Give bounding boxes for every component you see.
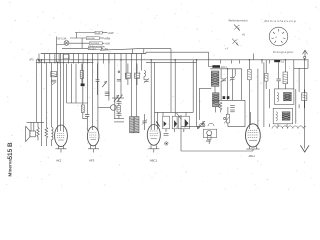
pickup arrow xyxy=(38,59,41,62)
wire pot to tube4 xyxy=(228,126,245,128)
dial lamp xyxy=(64,41,69,46)
wire drop2 to bus xyxy=(143,49,145,54)
wire R10 top xyxy=(248,60,250,70)
capacitor above tube2 xyxy=(85,114,89,116)
capacitor stack IF1 top xyxy=(117,102,122,104)
antenna trap symbol lower xyxy=(232,39,239,46)
wire under coil xyxy=(50,140,52,146)
svg-text:+U: +U xyxy=(242,33,246,37)
svg-text:200-580: 200-580 xyxy=(87,38,96,40)
wire cap block feeds xyxy=(303,90,305,93)
node circle mid xyxy=(118,71,120,73)
node circled junction xyxy=(165,142,168,145)
svg-text:Tonabn.: Tonabn. xyxy=(89,48,97,50)
component box on bus xyxy=(63,55,69,59)
wire left vertical to speaker line xyxy=(35,60,37,123)
wire to resistor R2 xyxy=(45,62,47,127)
caps right below IF2 xyxy=(230,106,235,112)
magic eye box xyxy=(203,129,216,137)
wire right b xyxy=(293,60,295,89)
mains arrow down xyxy=(300,145,309,152)
capacitor block right of transformer xyxy=(302,93,307,101)
wire IF2 bottom bar xyxy=(212,99,242,101)
bank box2 vane xyxy=(174,120,177,128)
svg-text:6-18: 6-18 xyxy=(96,33,101,35)
wire B1 leads xyxy=(127,64,129,74)
bus line B main xyxy=(36,59,309,61)
svg-text:(P): (P) xyxy=(30,58,34,62)
wire lamp bottom drop xyxy=(56,45,58,63)
electrolytic cap left xyxy=(51,80,56,82)
diode arrow D1 xyxy=(102,81,107,87)
output transformer upper primary bumps xyxy=(277,93,279,102)
wire lamp to row3 xyxy=(68,42,70,44)
tube V3 base line xyxy=(148,148,159,150)
wire bottom long xyxy=(181,150,253,152)
wire switch feed xyxy=(196,64,198,127)
wire tube3 grid xyxy=(154,62,156,130)
comb junction wires between buses xyxy=(39,54,270,64)
caps dark IF2 bottom xyxy=(223,96,226,99)
wire selector vertical join2 xyxy=(81,38,83,48)
wire wellenschalter line xyxy=(100,49,171,51)
tube V1 grids xyxy=(57,133,65,140)
coil L1 bumps xyxy=(51,127,53,140)
capacitor dark block C4 xyxy=(81,84,85,87)
IF2 winding upper xyxy=(211,71,219,86)
wire IF2 bar extension xyxy=(242,99,245,101)
wire tube2 left xyxy=(82,64,84,106)
svg-text:AK2: AK2 xyxy=(56,159,62,163)
bus line C mid xyxy=(146,61,197,63)
wire vertical 171 xyxy=(170,49,172,113)
wire speaker coil lead1 xyxy=(30,122,32,131)
tube V3 envelope xyxy=(147,124,160,145)
coil comp top mid xyxy=(144,71,146,77)
IF2 winding lower xyxy=(213,93,220,107)
wire step connector xyxy=(145,52,147,53)
output transformer upper box xyxy=(275,89,294,105)
wire right c xyxy=(298,68,300,92)
jack circle right of tube2 xyxy=(111,105,117,111)
magic eye bulb xyxy=(207,131,212,136)
antenna trap symbol upper xyxy=(234,25,240,31)
wire trimmer vertical xyxy=(144,114,146,121)
wire feed 121 xyxy=(120,64,122,99)
wire caps drop xyxy=(278,62,280,79)
wire B2 leads xyxy=(136,64,138,74)
mains transformer lower core hatched xyxy=(282,112,290,120)
wire row3 right stub xyxy=(102,42,104,44)
wire drop to bus xyxy=(132,49,134,54)
wire feed 141 xyxy=(141,64,143,71)
mains transformer lower box xyxy=(273,108,292,124)
wire row2 right stub xyxy=(99,37,103,39)
caps right pair xyxy=(276,79,280,81)
wire C5 leads xyxy=(96,64,98,80)
trimmer cap top mid xyxy=(144,78,149,83)
wire tube4 top cap xyxy=(252,54,254,60)
switch label box row1 xyxy=(95,31,102,34)
tube V1 base pins xyxy=(58,145,60,149)
loudspeaker coil box xyxy=(30,131,35,137)
tube V4 pin drop xyxy=(252,149,254,151)
wire horizontal y103 xyxy=(67,102,88,104)
wire feed 126 xyxy=(125,64,127,81)
tube V2 grids xyxy=(89,133,97,140)
scalloped chassis line xyxy=(272,126,306,129)
wire top link line xyxy=(146,51,209,53)
wire row4 right stub xyxy=(101,47,103,49)
svg-text:6V 0,3A: 6V 0,3A xyxy=(58,38,67,41)
wire spares above tube2 xyxy=(66,64,68,104)
wire IF1 verticals xyxy=(114,64,116,119)
mains transformer lower primary bumps xyxy=(276,112,278,121)
dark comp left of bank xyxy=(156,122,159,127)
aerial symbol top right xyxy=(303,50,308,54)
wire C4 lead xyxy=(82,86,84,103)
resistor beside speaker xyxy=(37,122,39,140)
pot arrow left of eye xyxy=(177,113,182,120)
tube V1 AK2 envelope xyxy=(55,125,68,147)
svg-text:515 B: 515 B xyxy=(7,142,14,159)
svg-text:+KW: +KW xyxy=(108,31,114,35)
capacitor IF1 lower xyxy=(117,114,122,116)
wire lamp left drop xyxy=(57,37,65,45)
tube V3 pin drop xyxy=(153,149,155,153)
wire row1 right stub xyxy=(102,32,107,34)
wire IF1 feed left xyxy=(108,54,110,101)
wire tube3 right xyxy=(157,112,159,129)
wire tube2 mid xyxy=(92,54,94,131)
output transformer upper core hatched xyxy=(284,92,292,100)
capacitor C6 xyxy=(105,92,110,95)
tube V3 grids xyxy=(150,131,158,139)
wire right main vertical xyxy=(304,59,306,149)
wire R10 bottom to tube4 xyxy=(248,80,250,129)
tube V4 grids xyxy=(248,130,259,140)
switch label box row4 xyxy=(88,47,101,50)
svg-text:0,1: 0,1 xyxy=(281,60,285,63)
svg-text:+ f: + f xyxy=(225,47,228,51)
svg-text:Minerva: Minerva xyxy=(8,159,13,177)
tube V2 pin drop xyxy=(92,149,94,153)
wire speaker coil lead2 xyxy=(33,122,35,131)
svg-text:L: L xyxy=(140,72,142,75)
svg-text:o: o xyxy=(276,36,278,39)
svg-text:Wellenschalter: Wellenschalter xyxy=(88,45,105,49)
component box B2 xyxy=(134,73,139,78)
choke coil right xyxy=(283,72,288,84)
tube V4 base line xyxy=(247,148,260,150)
wire magic eye left drop xyxy=(180,115,182,126)
cap arrow mark xyxy=(52,83,55,85)
wire IF2 top entry xyxy=(209,52,213,66)
capacitor C7 on wire xyxy=(117,79,121,81)
wire tube2 grid xyxy=(87,62,89,114)
resistor R3 hatched xyxy=(80,71,83,79)
scan noise (decorative) xyxy=(3,2,319,190)
title Minerva 515 B (vertical) xyxy=(7,142,14,176)
tube V2 base line xyxy=(88,148,99,150)
svg-text:ABL1: ABL1 xyxy=(249,154,256,158)
bank box3 vane xyxy=(185,119,189,128)
speaker top wire xyxy=(27,121,44,123)
trimmer IF2 b xyxy=(230,76,235,81)
resistor R2 zigzag xyxy=(45,127,48,146)
svg-text:+MW: +MW xyxy=(104,36,111,40)
wire left of transformer verticals xyxy=(263,62,265,127)
wire tube4 top left xyxy=(244,100,246,126)
wire eye to bottom xyxy=(180,126,182,151)
switch contacts mid xyxy=(197,121,205,129)
wire IF2 verticals xyxy=(220,69,222,79)
wire tube2 right xyxy=(97,62,99,131)
bank box1 vane xyxy=(164,121,167,127)
resistor box above tube2 xyxy=(81,105,84,113)
dark comp on bus right xyxy=(274,60,280,62)
wire choke xyxy=(284,60,286,72)
wire selector row1 xyxy=(75,32,95,34)
wire magic eye top xyxy=(181,125,205,127)
IF2 label blob xyxy=(212,65,220,68)
wire transformer right verticals xyxy=(295,89,297,124)
wire IF2 top bar xyxy=(210,68,242,70)
wire to coil L1 xyxy=(50,62,52,127)
IF1 transformer winding xyxy=(130,117,140,133)
resistor zigzag below IF2 xyxy=(219,102,222,112)
capacitor C5 xyxy=(96,80,100,82)
wire bank top line xyxy=(155,111,194,113)
svg-text:4x0,1: 4x0,1 xyxy=(221,66,228,69)
wire tube4 grid mid xyxy=(249,112,251,125)
bus line A xyxy=(41,53,146,55)
tube V3 base pins xyxy=(150,145,152,149)
volume pot near tube4 xyxy=(226,114,229,123)
wire bank bottoms xyxy=(165,129,167,132)
wire R3 leads xyxy=(81,64,83,71)
tube V1 base line xyxy=(56,148,67,150)
wire pot feed xyxy=(227,107,229,114)
capacitor below bank xyxy=(164,134,169,136)
resistor hatched R10 xyxy=(248,69,252,79)
switch label box row2 xyxy=(86,37,99,40)
tube V4 envelope xyxy=(246,124,261,147)
tube V2 base pins xyxy=(90,145,92,149)
wire transformer bottom stub xyxy=(277,124,279,127)
trimmer cap IF1 xyxy=(142,119,147,124)
wire right a xyxy=(265,60,267,74)
wire tube1 grid2 xyxy=(60,54,62,132)
wire selector row3 xyxy=(69,42,89,44)
tube V4 base pins xyxy=(249,146,251,149)
svg-text:AM1: AM1 xyxy=(206,140,212,143)
switch contact S1b xyxy=(118,95,123,101)
svg-text:Wellenbereich: Wellenbereich xyxy=(229,19,249,23)
tube V1 pin drop xyxy=(60,149,62,153)
wire IF1 horiz links xyxy=(114,118,124,120)
wire right link xyxy=(294,67,308,69)
wire x41.6 vertical xyxy=(41,60,43,146)
resistor hatched right a xyxy=(264,73,268,81)
wire bank feeds xyxy=(162,112,164,116)
wire IF1 winding tops xyxy=(130,64,132,117)
switch contact S1a xyxy=(114,95,119,101)
tube socket diagram xyxy=(269,27,288,46)
component box left K1 xyxy=(51,72,57,77)
bus line C left xyxy=(36,61,93,63)
svg-text:ABC1: ABC1 xyxy=(150,159,158,163)
wire IF2 winding link xyxy=(214,86,216,93)
svg-text:+LW: +LW xyxy=(105,42,111,46)
magic eye top arcs xyxy=(199,123,205,126)
component box B1 xyxy=(125,73,130,78)
terminal circle xyxy=(304,56,306,58)
wire tube3 left xyxy=(150,64,152,131)
bank box3 xyxy=(178,116,189,129)
svg-text:AF3: AF3 xyxy=(89,159,95,163)
wire tube1 grid1 xyxy=(57,62,59,132)
wire selector row2 xyxy=(70,37,86,39)
wire selector row4 xyxy=(62,47,88,49)
switch label box row3 xyxy=(89,42,102,45)
bank box2 xyxy=(172,116,177,129)
resistor box IF1 xyxy=(117,106,121,113)
loudspeaker cone xyxy=(26,126,30,141)
bank box1 xyxy=(163,116,170,129)
svg-text:Klangregler: Klangregler xyxy=(273,50,295,54)
tube V2 AF3 envelope xyxy=(87,127,99,146)
svg-text:Röhrenfassung: Röhrenfassung xyxy=(265,19,296,23)
wire tube1 grid3 xyxy=(63,62,65,132)
wire L corner mid xyxy=(198,88,200,120)
wire selector vertical join1 xyxy=(76,33,78,39)
trimmer IF2 a xyxy=(221,77,226,82)
